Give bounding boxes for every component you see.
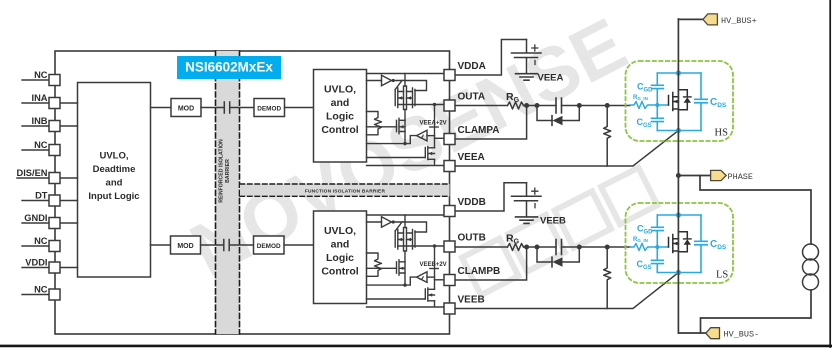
node NC pin stub <box>22 294 49 296</box>
node NC pin stub <box>22 245 49 247</box>
wire cap to gate node <box>562 105 631 107</box>
svg-text:LS: LS <box>716 270 728 281</box>
wire DEMOD B to logic control <box>284 244 314 246</box>
node junctions on gate row <box>524 245 529 250</box>
node HV_BUS+ terminal <box>703 14 718 25</box>
svg-text:DT: DT <box>35 191 48 201</box>
svg-text:VDDB: VDDB <box>458 197 486 208</box>
chip NSI6602 outer boundary <box>55 51 450 334</box>
node INA pin stub <box>22 102 49 104</box>
pin VEEB <box>444 303 455 314</box>
node VDDI pin stub <box>22 267 49 269</box>
svg-text:HV_BUS+: HV_BUS+ <box>721 16 757 26</box>
node HV_BUS- terminal <box>706 328 720 339</box>
reinforced isolation barrier <box>216 51 240 334</box>
node GNDI pin stub <box>22 222 49 224</box>
svg-text:MOD: MOD <box>177 243 193 250</box>
svg-text:VEEA+2V: VEEA+2V <box>420 120 447 126</box>
capacitor VEEA supply <box>512 40 542 81</box>
svg-text:Input Logic: Input Logic <box>88 191 139 202</box>
wire VDDB to supply cap <box>455 183 526 211</box>
svg-text:BARRIER: BARRIER <box>225 159 231 183</box>
svg-text:DEMOD: DEMOD <box>257 243 281 250</box>
wire OUTA to R_G <box>455 105 507 107</box>
pin GNDI <box>49 218 60 229</box>
pin VDDI <box>49 262 60 273</box>
svg-text:OUTB: OUTB <box>458 233 486 244</box>
driver channel A block <box>314 70 444 166</box>
block MOD B <box>171 236 201 254</box>
svg-text:DIS/EN: DIS/EN <box>17 168 48 178</box>
node PHASE terminal <box>711 170 727 180</box>
wire MOD A to barrier cap <box>201 107 224 109</box>
svg-text:VEEB+2V: VEEB+2V <box>420 262 447 268</box>
resistor R_G (B) <box>508 244 524 251</box>
wire OUTB to R_G <box>455 246 507 248</box>
svg-text:OUTA: OUTA <box>458 92 486 103</box>
block MOD A <box>171 99 201 117</box>
wire VEEA line <box>455 131 678 167</box>
svg-text:FUNCTION ISOLATION BARRIER: FUNCTION ISOLATION BARRIER <box>305 189 386 195</box>
svg-text:VEEA: VEEA <box>538 73 564 84</box>
svg-text:NOVOSENSE: NOVOSENSE <box>177 2 638 293</box>
svg-text:MOD: MOD <box>178 106 194 113</box>
pin NC <box>49 145 60 156</box>
svg-text:HS: HS <box>715 128 729 139</box>
pin NC <box>49 289 60 300</box>
block DEMOD A <box>254 99 285 117</box>
wire CLAMPB to gate node <box>455 247 526 280</box>
wire INA to input logic <box>60 102 78 104</box>
wire VEEB line <box>455 273 678 309</box>
watermark (decorative) <box>177 2 657 295</box>
wire cap to gate node <box>562 246 631 248</box>
node NC pin stub <box>22 79 49 81</box>
wire HV bus rail <box>677 19 679 333</box>
resistor R_G (A) <box>508 102 524 109</box>
pin NC <box>49 75 60 86</box>
wire VDDI to input logic <box>60 267 78 269</box>
wire VDDA to supply cap <box>455 40 526 76</box>
svg-text:INB: INB <box>31 116 47 126</box>
svg-text:DEMOD: DEMOD <box>257 105 281 112</box>
pin OUTB <box>444 241 455 252</box>
svg-text:HV_BUS-: HV_BUS- <box>724 330 760 340</box>
pin INA <box>49 98 60 109</box>
pin VEEA <box>444 161 455 172</box>
driver channel B block <box>314 211 444 307</box>
border frame <box>829 0 831 347</box>
resistor gate-source pulldown (B) <box>604 247 611 309</box>
svg-text:VEEB: VEEB <box>458 295 485 306</box>
capacitor isolation B <box>224 240 229 251</box>
transistor LS low-side MOSFET model <box>626 203 734 283</box>
svg-text:GNDI: GNDI <box>24 213 47 223</box>
wire PHASE <box>678 175 710 177</box>
svg-text:VDDI: VDDI <box>25 258 47 268</box>
chip label NSI6602MxEx <box>177 56 281 79</box>
wire input logic to MOD A <box>151 107 172 109</box>
svg-text:CLAMPA: CLAMPA <box>458 125 500 136</box>
functional isolation barrier <box>240 184 450 196</box>
pin VDDB <box>444 206 455 217</box>
node DT pin stub <box>22 200 49 202</box>
node INB pin stub <box>22 125 49 127</box>
diode turn-off (A) <box>537 106 579 121</box>
node junctions on gate row <box>524 103 529 108</box>
svg-text:Deadtime: Deadtime <box>93 164 136 175</box>
wire input logic to MOD B <box>151 244 171 246</box>
pin INB <box>49 121 60 132</box>
pin DT <box>49 195 60 206</box>
svg-text:CLAMPB: CLAMPB <box>458 266 501 277</box>
wire to HV_BUS+ <box>678 18 703 20</box>
svg-text:VDDA: VDDA <box>458 61 486 72</box>
transistor HS high-side MOSFET model <box>626 61 734 141</box>
svg-text:VEEB: VEEB <box>540 216 566 227</box>
node phase junction <box>676 173 681 178</box>
svg-text:UVLO,: UVLO, <box>99 151 128 162</box>
capacitor VEEB supply <box>512 183 542 224</box>
svg-text:NSI6602MxEx: NSI6602MxEx <box>185 60 273 75</box>
svg-text:NC: NC <box>34 70 48 80</box>
resistor gate-source pulldown (A) <box>604 106 611 167</box>
op-amp U input logic block <box>78 83 151 278</box>
block DEMOD B <box>254 236 285 254</box>
pin NC <box>49 241 60 252</box>
svg-text:NC: NC <box>34 140 48 150</box>
node NC pin stub <box>22 149 49 151</box>
inductor load <box>803 244 819 260</box>
wire INB to input logic <box>60 125 78 127</box>
pin OUTA <box>444 100 455 111</box>
wire DIS/EN to input logic <box>60 177 78 179</box>
capacitor isolation A <box>224 102 229 113</box>
capacitor boost (A) <box>556 98 562 113</box>
pin DIS/EN <box>49 173 60 184</box>
wire to HV_BUS- <box>678 332 705 334</box>
svg-text:NC: NC <box>34 236 48 246</box>
wire CLAMPA to gate node <box>455 106 526 140</box>
capacitor boost (B) <box>556 240 562 255</box>
wire load return <box>701 290 812 333</box>
svg-text:PHASE: PHASE <box>728 172 754 182</box>
svg-text:and: and <box>106 178 123 189</box>
node DIS/EN pin stub <box>17 177 49 179</box>
svg-text:VEEA: VEEA <box>458 152 485 163</box>
wire barrier cap to DEMOD B <box>229 244 253 246</box>
wire MOD B to barrier cap <box>201 244 224 246</box>
svg-text:RG: RG <box>506 233 520 246</box>
wire DT to input logic <box>60 200 78 202</box>
pin VDDA <box>444 70 455 81</box>
svg-text:INA: INA <box>31 93 47 103</box>
svg-text:REINFORCED ISOLATION: REINFORCED ISOLATION <box>219 139 225 203</box>
pin CLAMPA <box>444 134 455 145</box>
wire R_G to boost cap <box>524 105 557 107</box>
wire load branch <box>700 176 811 245</box>
wire GNDI to input logic <box>60 222 78 224</box>
svg-text:NC: NC <box>34 285 48 295</box>
wire barrier cap to DEMOD A <box>230 107 254 109</box>
wire R_G to boost cap <box>524 246 557 248</box>
wire DEMOD A to logic control <box>285 107 314 109</box>
pin CLAMPB <box>444 275 455 286</box>
diode turn-off (B) <box>537 247 579 262</box>
